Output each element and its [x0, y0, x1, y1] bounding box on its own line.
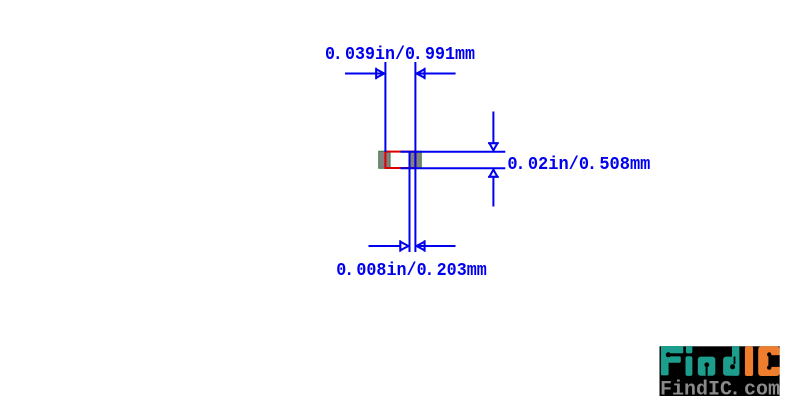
- svg-text:0.008in/0.203mm: 0.008in/0.203mm: [336, 260, 487, 281]
- logo F trace gap (black): [670, 353, 683, 356]
- logo letter d (teal): [732, 346, 739, 376]
- FindIC logo black background: [660, 346, 780, 396]
- extension line V2 right (top+bottom dimensions): [414, 62, 416, 252]
- height dimension extension line top: [401, 151, 506, 153]
- top dimension line left segment: [345, 73, 384, 75]
- top dimension line right segment: [417, 73, 456, 75]
- bottom dimension arrowhead left-pointing: [417, 242, 425, 251]
- top dimension arrowhead left-pointing: [417, 69, 425, 78]
- chip body outline (red): [385, 152, 415, 168]
- logo letter F (teal): [661, 346, 683, 375]
- left terminal cap (gray): [379, 151, 390, 168]
- logo letter C (orange): [758, 346, 779, 376]
- logo n slot (black): [706, 365, 708, 376]
- logo letter i (teal): [686, 346, 693, 353]
- height dimension extension line bottom: [401, 167, 506, 169]
- top dimension arrowhead right-pointing: [376, 69, 384, 78]
- logo C opening (black): [770, 355, 780, 367]
- logo d via dot (black): [730, 364, 735, 369]
- right terminal cap (gray): [409, 151, 421, 168]
- height dimension arrowhead up-pointing: [489, 170, 497, 177]
- logo C trace line (black): [768, 355, 770, 368]
- svg-text:0.039in/0.991mm: 0.039in/0.991mm: [325, 44, 475, 65]
- height dimension line upper segment: [492, 112, 494, 145]
- bottom dimension arrowhead right-pointing: [400, 242, 408, 251]
- extension line V1 left (top dimension): [384, 62, 386, 152]
- bottom dimension line left segment: [369, 245, 402, 247]
- logo letter I (orange): [745, 346, 753, 376]
- logo C via dot top (black): [767, 352, 771, 356]
- logo C via dot bottom (black): [767, 365, 771, 369]
- logo n via dot (black): [704, 362, 709, 367]
- height dimension line lower segment: [492, 177, 494, 207]
- extension line V3 (bottom dimension, left): [409, 151, 411, 252]
- svg-text:0.02in/0.508mm: 0.02in/0.508mm: [507, 154, 650, 175]
- logo letter n (teal): [698, 357, 716, 376]
- logo d slot (black): [734, 357, 736, 365]
- svg-text:FindIC.com: FindIC.com: [660, 379, 780, 402]
- bottom dimension line right segment: [417, 245, 456, 247]
- height dimension arrowhead down-pointing: [489, 143, 497, 150]
- logo F via dot (black): [666, 352, 671, 357]
